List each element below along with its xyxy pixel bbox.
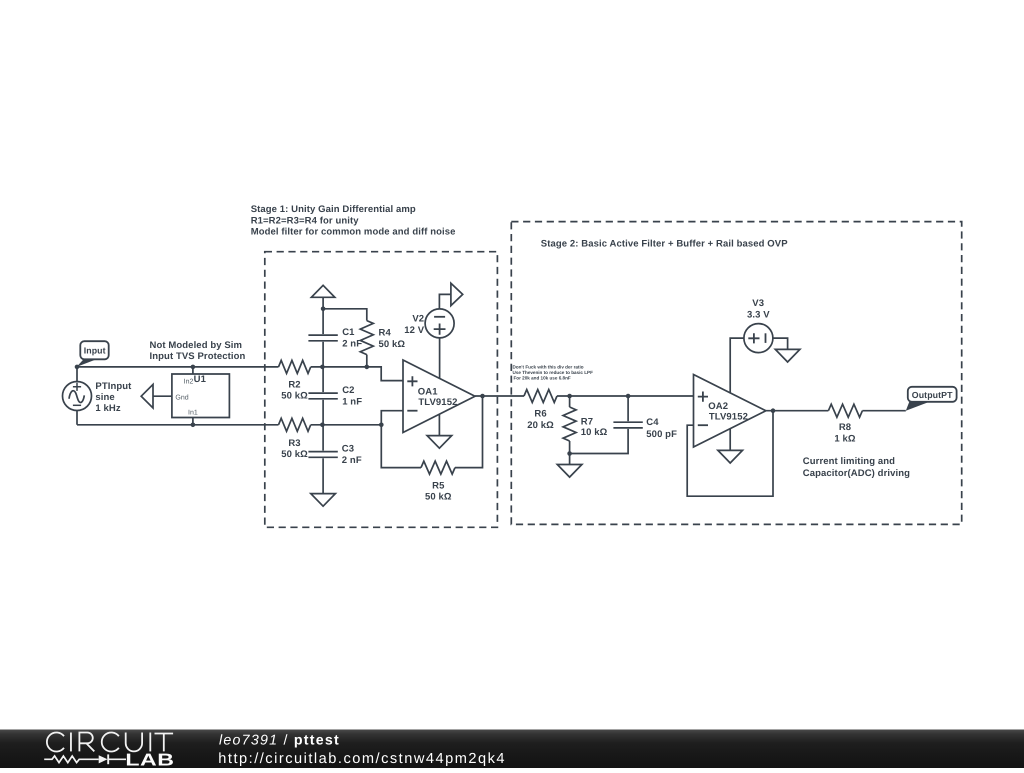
svg-text:Model filter for common mode a: Model filter for common mode and diff no…	[251, 227, 456, 238]
svg-text:R1=R2=R3=R4 for unity: R1=R2=R3=R4 for unity	[251, 215, 360, 226]
svg-text:R7: R7	[581, 416, 593, 427]
svg-text:1 kHz: 1 kHz	[95, 403, 120, 414]
svg-text:C1: C1	[342, 327, 355, 338]
svg-text:Input TVS Protection: Input TVS Protection	[150, 351, 246, 362]
svg-text:1 kΩ: 1 kΩ	[834, 434, 856, 445]
svg-text:OA1: OA1	[418, 386, 438, 397]
svg-text:TLV9152: TLV9152	[418, 397, 457, 408]
svg-text:leo7391 / pttest: leo7391 / pttest	[219, 732, 340, 748]
svg-text:Input: Input	[84, 346, 106, 356]
svg-text:Current limiting and: Current limiting and	[803, 456, 895, 467]
svg-text:Not Modeled by Sim: Not Modeled by Sim	[150, 340, 243, 351]
svg-text:Stage 1: Unity Gain Differenti: Stage 1: Unity Gain Differential amp	[251, 204, 416, 215]
svg-text:50 kΩ: 50 kΩ	[425, 492, 452, 503]
svg-text:R6: R6	[534, 409, 546, 420]
svg-text:In1: In1	[188, 410, 198, 417]
svg-text:50 kΩ: 50 kΩ	[379, 339, 406, 350]
svg-text:Gnd: Gnd	[175, 393, 188, 401]
svg-text:sine: sine	[95, 392, 114, 403]
svg-text:Use Thevenin to reduce to basi: Use Thevenin to reduce to basic LPF	[513, 370, 594, 375]
svg-text:Stage 2: Basic Active Filter +: Stage 2: Basic Active Filter + Buffer + …	[541, 238, 788, 249]
svg-text:http://circuitlab.com/cstnw44p: http://circuitlab.com/cstnw44pm2qk4	[218, 751, 506, 767]
svg-text:12 V: 12 V	[404, 325, 425, 336]
svg-text:R3: R3	[288, 438, 300, 449]
svg-text:OA2: OA2	[708, 401, 728, 412]
svg-text:U1: U1	[194, 374, 207, 385]
svg-text:LAB: LAB	[125, 750, 174, 768]
svg-text:C3: C3	[342, 443, 354, 454]
svg-text:In2: In2	[184, 378, 194, 385]
svg-text:C4: C4	[646, 417, 659, 428]
svg-text:C2: C2	[342, 385, 354, 396]
svg-text:Don't Fuck with this div der r: Don't Fuck with this div der ratio	[513, 364, 584, 369]
svg-text:TLV9152: TLV9152	[709, 412, 748, 423]
svg-text:2 nF: 2 nF	[342, 338, 362, 349]
svg-text:10 kΩ: 10 kΩ	[581, 427, 608, 438]
svg-text:R5: R5	[432, 480, 445, 491]
svg-text:1 nF: 1 nF	[342, 396, 362, 407]
svg-text:R2: R2	[288, 379, 300, 390]
svg-text:PTInput: PTInput	[95, 381, 132, 392]
svg-text:500 pF: 500 pF	[646, 429, 677, 440]
svg-text:V3: V3	[752, 298, 764, 309]
svg-text:20 kΩ: 20 kΩ	[527, 420, 554, 431]
svg-text:For 20k and 10k use 6.8nF: For 20k and 10k use 6.8nF	[514, 375, 571, 380]
svg-text:V2: V2	[412, 314, 424, 325]
svg-text:2 nF: 2 nF	[342, 455, 362, 466]
svg-text:R8: R8	[839, 422, 851, 433]
svg-text:50 kΩ: 50 kΩ	[281, 391, 308, 402]
svg-text:3.3 V: 3.3 V	[747, 310, 770, 321]
svg-text:Capacitor(ADC) driving: Capacitor(ADC) driving	[803, 468, 910, 479]
svg-text:50 kΩ: 50 kΩ	[281, 449, 308, 460]
svg-text:R4: R4	[379, 328, 392, 339]
svg-text:OutputPT: OutputPT	[912, 390, 953, 400]
